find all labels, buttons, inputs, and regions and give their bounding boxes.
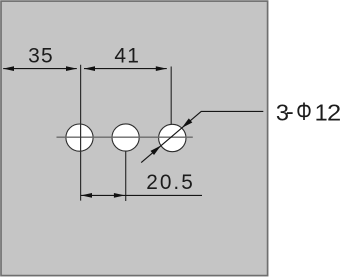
svg-text:20.5: 20.5 xyxy=(146,171,194,194)
hole H2 xyxy=(112,124,139,151)
dimension line 20.5 xyxy=(81,194,202,196)
arrow right of dim 35 xyxy=(66,66,77,71)
arrow lower-left on diameter line xyxy=(151,146,162,156)
arrow left of dim 41 xyxy=(84,66,95,71)
arrow right of dim 41 xyxy=(156,66,167,71)
hole H3 xyxy=(159,124,186,151)
extension line through H1 xyxy=(80,65,82,201)
arrow left of dim 35 xyxy=(3,66,14,71)
centerline through holes xyxy=(57,136,193,138)
arrow right of dim 20.5 xyxy=(114,193,125,198)
svg-text:35: 35 xyxy=(28,45,54,68)
extension line above H3 xyxy=(170,67,172,125)
dimension line 41 xyxy=(84,68,167,70)
svg-text:3-Φ12: 3-Φ12 xyxy=(276,98,341,126)
arrow left of dim 20.5 xyxy=(81,193,92,198)
extension line below H2 xyxy=(125,151,127,201)
plate outline xyxy=(1,1,268,276)
diameter leader line xyxy=(141,111,263,162)
svg-text:41: 41 xyxy=(114,45,140,68)
arrow upper-right on diameter line xyxy=(182,118,193,128)
hole H1 xyxy=(66,124,93,151)
dimension line 35 xyxy=(3,68,77,70)
